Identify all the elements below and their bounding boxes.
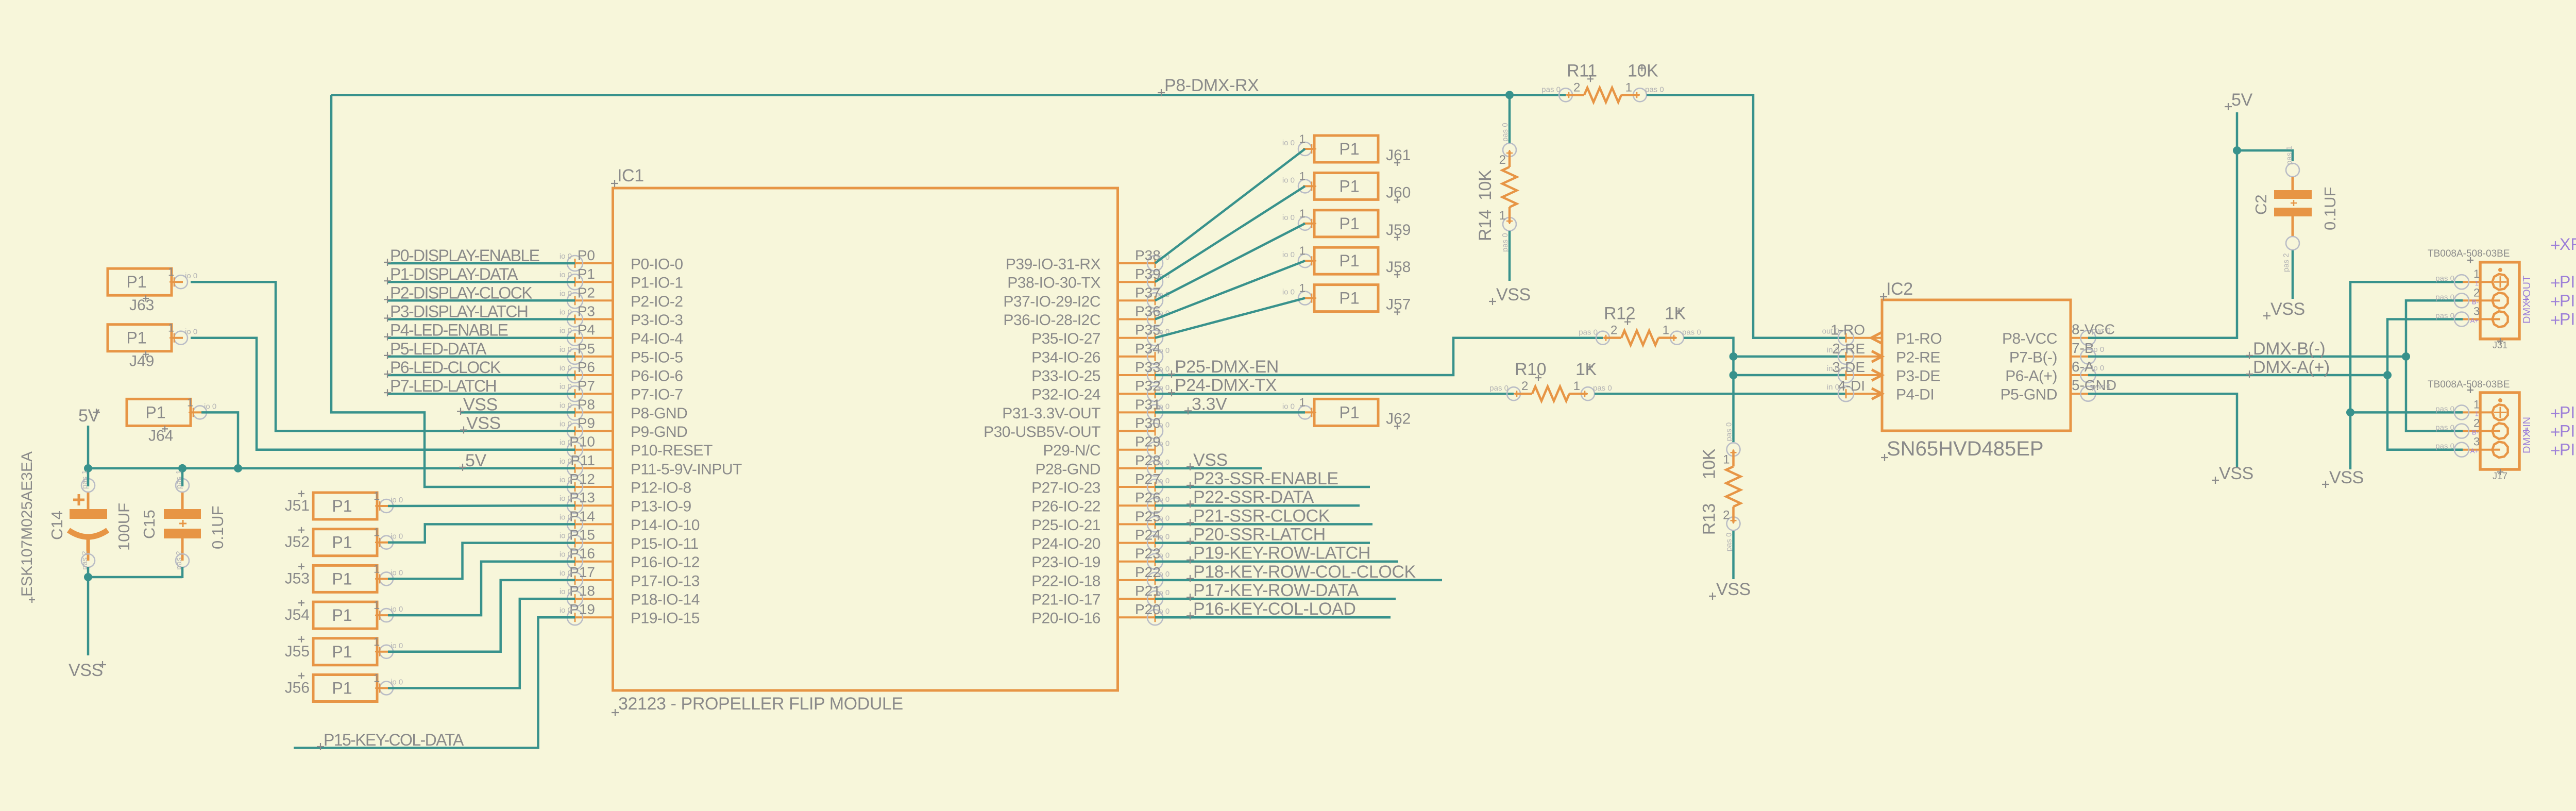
net label P2-DISPLAY-CLOCK — [384, 283, 532, 303]
svg-text:VSS: VSS — [463, 395, 498, 414]
svg-text:1K: 1K — [1665, 304, 1686, 324]
IC1 pin P39 (right, P38-IO-30-TX) — [1007, 266, 1170, 292]
connector J60 (P1 header) — [1282, 170, 1378, 199]
svg-text:io 0: io 0 — [560, 550, 572, 559]
svg-text:P19-KEY-ROW-LATCH: P19-KEY-ROW-LATCH — [1193, 544, 1370, 563]
svg-text:io 0: io 0 — [1282, 288, 1295, 297]
wire J56 to IC1 pin P18 — [388, 599, 575, 688]
svg-text:J56: J56 — [285, 680, 310, 697]
svg-text:io 0: io 0 — [1157, 514, 1170, 522]
C15 pin1 tiny label — [175, 470, 183, 489]
svg-text:io 0: io 0 — [1157, 477, 1170, 485]
IC1 pin P31 (right, P31-3.3V-OUT) — [1002, 396, 1170, 422]
svg-text:P35-IO-27: P35-IO-27 — [1031, 330, 1100, 347]
IC1 pin P13 (left, P13-IO-9) — [560, 489, 691, 515]
capacitor C14 (100UF electrolytic) — [69, 479, 108, 567]
IC1 pin P19 (left, P19-IO-15) — [560, 601, 700, 627]
svg-text:C14: C14 — [48, 511, 66, 540]
svg-text:io 0: io 0 — [185, 272, 197, 280]
svg-text:R11: R11 — [1567, 61, 1597, 80]
svg-text:io 0: io 0 — [560, 289, 572, 298]
IC1 pin P3 (left, P3-IO-3) — [560, 303, 683, 329]
IC1 pin P36 (right, P36-IO-28-I2C) — [1003, 303, 1170, 329]
svg-text:P33-IO-25: P33-IO-25 — [1031, 368, 1100, 385]
svg-text:10K: 10K — [1700, 448, 1719, 479]
annotation PIN 2 (B-) lower — [2551, 422, 2576, 441]
wire DMX-RX junction to R11 — [1510, 94, 1566, 96]
wire 5V stub — [2236, 112, 2239, 150]
IC2 pin 6-A — [2005, 359, 2104, 385]
svg-text:P0-IO-0: P0-IO-0 — [631, 256, 683, 273]
svg-text:P1: P1 — [1339, 289, 1359, 308]
svg-text:P14: P14 — [569, 508, 595, 524]
connector J60 designator — [1386, 184, 1411, 203]
svg-text:P16-KEY-COL-LOAD: P16-KEY-COL-LOAD — [1193, 599, 1355, 619]
svg-text:P32-IO-24: P32-IO-24 — [1031, 386, 1100, 403]
svg-text:J53: J53 — [285, 570, 310, 587]
wire DMX-A to J17 pin3 — [2387, 375, 2463, 450]
svg-text:io 0: io 0 — [391, 605, 403, 614]
svg-text:2: 2 — [1611, 324, 1617, 337]
wire GND to VSS (IC2) — [2088, 394, 2237, 468]
svg-text:1: 1 — [187, 396, 193, 409]
svg-text:P1: P1 — [145, 403, 165, 421]
svg-text:J62: J62 — [1386, 410, 1411, 427]
C14 value label 100UF — [115, 503, 133, 551]
IC1 pin P15 (left, P15-IO-11) — [560, 527, 699, 553]
connector J64 designator — [148, 426, 173, 444]
svg-text:2: 2 — [1573, 80, 1580, 94]
svg-text:IC1: IC1 — [617, 166, 644, 185]
wire C15 top stub — [181, 468, 184, 486]
svg-text:VSS: VSS — [69, 661, 103, 680]
connector J57 (P1 header) — [1282, 282, 1378, 312]
svg-text:1: 1 — [374, 489, 380, 502]
svg-text:pwr 0: pwr 0 — [2092, 327, 2111, 335]
svg-text:pas 0: pas 0 — [1682, 328, 1701, 337]
annotation PIN 3 (A+) upper — [2551, 310, 2576, 329]
svg-text:pas 0: pas 0 — [2435, 424, 2454, 432]
net label DMX-A(+) — [2246, 358, 2330, 378]
net label P4-LED-ENABLE — [384, 321, 507, 341]
svg-text:P25-DMX-EN: P25-DMX-EN — [1175, 357, 1279, 377]
IC1 pin P30 (right, P30-USB5V-OUT) — [984, 415, 1170, 441]
IC2 value label SN65HVD485EP — [1881, 437, 2044, 461]
svg-text:2: 2 — [1521, 379, 1528, 393]
svg-text:P13: P13 — [569, 489, 595, 505]
IC1 pin P10 (left, P10-RESET) — [560, 434, 713, 460]
connector J53 (P1 header) — [313, 562, 403, 592]
svg-text:R13: R13 — [1700, 503, 1719, 535]
svg-text:P39-IO-31-RX: P39-IO-31-RX — [1006, 256, 1101, 273]
net label VSS (pin P8) — [457, 395, 498, 415]
svg-text:P21-SSR-CLOCK: P21-SSR-CLOCK — [1193, 506, 1330, 526]
resistor R12 1K — [1579, 304, 1701, 345]
capacitor C2 (0.1UF ceramic) — [2274, 163, 2312, 250]
wire DMX-A to J31 pin3 — [2387, 319, 2463, 376]
svg-text:io 0: io 0 — [2092, 364, 2104, 373]
IC1 pin P1 (left, P1-IO-1) — [560, 266, 683, 292]
svg-text:P9: P9 — [578, 415, 595, 431]
junction DMX-B — [2402, 352, 2410, 361]
junction 5V rail / C15 — [178, 464, 187, 472]
svg-text:P23-IO-19: P23-IO-19 — [1031, 554, 1100, 571]
svg-text:P4-LED-ENABLE: P4-LED-ENABLE — [390, 321, 507, 340]
connector J53 designator — [285, 563, 310, 587]
connector J57 designator — [1386, 296, 1411, 315]
junction VSS bus — [84, 573, 92, 581]
wire IC1 pin P31 to J62 — [1155, 411, 1305, 414]
svg-text:1: 1 — [1625, 80, 1632, 94]
svg-text:pas 0: pas 0 — [2435, 274, 2454, 283]
svg-text:P2-RE: P2-RE — [1896, 349, 1940, 366]
IC1 pin P5 (left, P5-IO-5) — [560, 341, 683, 366]
wire net VSS at IC1 right row — [1155, 467, 1262, 470]
svg-text:P30-USB5V-OUT: P30-USB5V-OUT — [984, 424, 1100, 441]
wire net P22-SSR-DATA at IC1 right row — [1155, 504, 1360, 507]
svg-text:1: 1 — [2473, 267, 2480, 280]
svg-text:J59: J59 — [1386, 222, 1411, 239]
svg-text:io 0: io 0 — [560, 532, 572, 540]
svg-text:P6-A(+): P6-A(+) — [2005, 368, 2057, 385]
IC2 pin 4-DI — [1827, 378, 1934, 403]
svg-text:2: 2 — [1499, 153, 1506, 167]
C2 pin1 tiny label — [2285, 146, 2294, 165]
wire net P3-DISPLAY-LATCH to IC1 pin P3 — [387, 318, 575, 320]
wire net P0-DISPLAY-ENABLE to IC1 pin P0 — [387, 262, 575, 265]
svg-text:pas 0: pas 0 — [2435, 442, 2454, 451]
svg-text:io 0: io 0 — [1157, 533, 1170, 542]
svg-text:P3: P3 — [578, 303, 595, 319]
svg-text:P7-B(-): P7-B(-) — [2009, 349, 2057, 366]
IC2 pin 5-GND — [2001, 377, 2116, 403]
wire IC1 pin to J57 (diagonal) — [1155, 298, 1305, 338]
IC2 pin 3-DE — [1827, 359, 1940, 385]
svg-text:32123 - PROPELLER FLIP MODULE: 32123 - PROPELLER FLIP MODULE — [618, 694, 903, 714]
net label P0-DISPLAY-ENABLE — [384, 246, 539, 266]
connector J54 (P1 header) — [313, 599, 403, 629]
wire net P23-SSR-ENABLE at IC1 right row — [1155, 486, 1370, 488]
connector J51 (P1 header) — [313, 489, 403, 519]
svg-text:io 0: io 0 — [560, 513, 572, 521]
svg-text:P21-IO-17: P21-IO-17 — [1031, 592, 1100, 609]
svg-text:P18-KEY-ROW-COL-CLOCK: P18-KEY-ROW-COL-CLOCK — [1193, 562, 1416, 582]
IC1 pin P27 (right, P27-IO-23) — [1031, 471, 1170, 497]
net label VSS (under R14) — [1489, 285, 1531, 305]
svg-text:io 0: io 0 — [1157, 458, 1170, 467]
svg-text:P1: P1 — [332, 606, 352, 624]
svg-text:J31: J31 — [2493, 340, 2507, 350]
svg-text:P8-DMX-RX: P8-DMX-RX — [1164, 76, 1259, 95]
svg-text:pas 0: pas 0 — [1725, 533, 1734, 552]
net label VSS (under connectors) — [2322, 468, 2364, 488]
IC1 value label 32123 - PROPELLER FLIP MODULE — [612, 694, 903, 716]
IC1 pin P8 (left, P8-GND) — [560, 396, 688, 422]
resistor R13 10K — [1700, 423, 1741, 552]
svg-text:P2-IO-2: P2-IO-2 — [631, 293, 683, 310]
resistor R14 10K — [1476, 123, 1517, 252]
svg-text:P1: P1 — [332, 643, 352, 661]
svg-text:P6: P6 — [578, 359, 595, 375]
svg-text:P3-IO-3: P3-IO-3 — [631, 312, 683, 329]
svg-text:J57: J57 — [1386, 296, 1411, 313]
svg-text:io 0: io 0 — [560, 438, 572, 447]
wire VSS bus under caps — [88, 576, 182, 579]
part number text ESK107M025AE3EA — [19, 451, 36, 603]
junction 5V rail / C14 — [84, 464, 92, 472]
connector J31 (TB008A-508-03BE, DMX-OUT) — [2435, 262, 2519, 339]
wire C14 bottom to VSS bus — [87, 567, 90, 578]
svg-text:P9-GND: P9-GND — [631, 424, 687, 441]
svg-text:1: 1 — [1499, 209, 1506, 223]
svg-text:1: 1 — [374, 526, 380, 539]
wire C2 bottom to VSS — [2292, 250, 2294, 299]
svg-text:J55: J55 — [285, 643, 310, 660]
svg-text:1: 1 — [1299, 170, 1306, 182]
svg-text:J49: J49 — [129, 353, 154, 370]
op-amp IC2 body (RS-485 transceiver) — [1882, 300, 2071, 431]
wire net P1-DISPLAY-DATA to IC1 pin P1 — [387, 281, 575, 283]
IC1 pin P16 (left, P16-IO-12) — [560, 546, 700, 571]
svg-text:P1: P1 — [126, 329, 146, 347]
IC1 pin P7 (left, P7-IO-7) — [560, 378, 683, 403]
connector J58 designator — [1386, 259, 1411, 278]
connector J62 designator — [1386, 410, 1411, 429]
wire 5V rail to IC1 pin P11 — [88, 467, 575, 470]
svg-text:P10-RESET: P10-RESET — [631, 442, 713, 459]
IC1 pin P24 (right, P24-IO-20) — [1031, 527, 1170, 553]
wire net P2-DISPLAY-CLOCK to IC1 pin P2 — [387, 299, 575, 302]
svg-text:P10: P10 — [569, 434, 595, 450]
IC2 pin 1-RO — [1822, 322, 1942, 348]
svg-text:J51: J51 — [285, 497, 310, 514]
svg-text:IC2: IC2 — [1886, 279, 1913, 299]
svg-text:P1: P1 — [126, 273, 146, 291]
svg-text:J63: J63 — [129, 297, 154, 314]
svg-text:P25-IO-21: P25-IO-21 — [1031, 517, 1100, 534]
C14 pin2 tiny label — [80, 551, 89, 570]
svg-text:A+: A+ — [2470, 447, 2479, 455]
svg-text:P28-GND: P28-GND — [1035, 461, 1100, 478]
J31 designator — [2493, 338, 2507, 350]
net label VSS (right) — [1187, 450, 1228, 470]
svg-text:P1-RO: P1-RO — [1896, 330, 1942, 347]
svg-text:VSS: VSS — [1193, 450, 1228, 470]
annotation PIN 3 (A+) lower — [2551, 441, 2576, 459]
svg-text:P38-IO-30-TX: P38-IO-30-TX — [1007, 275, 1100, 292]
svg-text:io 0: io 0 — [391, 678, 403, 687]
svg-text:pas 0: pas 0 — [2435, 404, 2454, 413]
IC1 pin P22 (right, P22-IO-18) — [1031, 564, 1170, 590]
svg-text:1: 1 — [2473, 398, 2480, 411]
svg-text:P4: P4 — [578, 322, 595, 338]
svg-text:io 0: io 0 — [560, 494, 572, 503]
svg-text:io 0: io 0 — [560, 271, 572, 279]
svg-text:J52: J52 — [285, 534, 310, 551]
svg-text:P14-IO-10: P14-IO-10 — [631, 517, 700, 534]
connector J58 (P1 header) — [1282, 244, 1378, 274]
svg-text:io 0: io 0 — [1157, 365, 1170, 374]
wire net DMX-B(-) — [2088, 356, 2406, 358]
wire net P16-KEY-COL-LOAD at IC1 right row — [1155, 616, 1391, 619]
svg-text:1: 1 — [168, 265, 174, 278]
svg-text:in 0: in 0 — [1827, 346, 1839, 354]
connector J52 (P1 header) — [313, 526, 403, 556]
svg-text:pwr 0: pwr 0 — [2092, 382, 2111, 391]
wire R13 bottom to VSS — [1732, 531, 1735, 579]
svg-text:P36-IO-28-I2C: P36-IO-28-I2C — [1003, 312, 1100, 329]
svg-text:1: 1 — [1299, 132, 1306, 145]
wire IC1 pin to J58 (diagonal) — [1155, 261, 1305, 319]
svg-text:VSS: VSS — [466, 414, 501, 433]
svg-text:io 0: io 0 — [1157, 383, 1170, 392]
wire R10 to IC2 DI — [1595, 393, 1846, 395]
net label VSS (under C2) — [2263, 299, 2305, 319]
net label 3.3V — [1184, 394, 1227, 414]
C2 value label 0.1UF — [2321, 187, 2339, 230]
svg-text:P11-5-9V-INPUT: P11-5-9V-INPUT — [631, 461, 742, 478]
wire from J63 to IC1 pin P9 — [191, 282, 575, 431]
svg-text:in 0: in 0 — [1827, 383, 1839, 392]
svg-text:P15: P15 — [569, 527, 595, 543]
svg-text:P1: P1 — [1339, 140, 1359, 158]
net label P1-DISPLAY-DATA — [384, 265, 518, 284]
svg-text:P16: P16 — [569, 546, 595, 562]
svg-text:P4-IO-4: P4-IO-4 — [631, 330, 683, 347]
svg-text:io 0: io 0 — [391, 496, 403, 504]
svg-text:P3-DE: P3-DE — [1896, 368, 1940, 385]
wire J51 to IC1 pin P13 — [388, 504, 575, 507]
svg-text:P20-IO-16: P20-IO-16 — [1031, 610, 1100, 627]
wire net P6-LED-CLOCK to IC1 pin P6 — [387, 374, 575, 377]
junction DMX-RX / R14 — [1505, 91, 1514, 99]
C15 value label 0.1UF — [209, 506, 227, 549]
connector J55 designator — [285, 636, 310, 660]
wire R12 to enable riser — [1684, 338, 1734, 442]
svg-text:DMX-A(+): DMX-A(+) — [2253, 358, 2330, 377]
IC2 pin 8-VCC — [2002, 322, 2115, 348]
wire J64 pin to 5V rail — [201, 412, 238, 468]
C14 reference label — [48, 511, 66, 540]
svg-text:pas 0: pas 0 — [1645, 85, 1664, 94]
svg-text:PIN 1 (GND): PIN 1 (GND) — [2560, 273, 2576, 291]
J17 designator — [2493, 469, 2507, 481]
net label VSS (under R13) — [1709, 580, 1751, 600]
annotation PIN 2 (B-) upper — [2551, 291, 2576, 310]
svg-text:P5-LED-DATA: P5-LED-DATA — [390, 340, 487, 358]
svg-text:io 0: io 0 — [2092, 345, 2104, 354]
wire IC1 pin to J60 (diagonal) — [1155, 186, 1305, 282]
svg-text:VSS: VSS — [1496, 285, 1531, 305]
svg-text:PIN 1 (GND): PIN 1 (GND) — [2560, 403, 2576, 421]
svg-text:SN65HVD485EP: SN65HVD485EP — [1887, 437, 2044, 460]
svg-text:io 0: io 0 — [1157, 495, 1170, 504]
svg-text:PIN 2 (B-): PIN 2 (B-) — [2560, 291, 2576, 310]
svg-text:PIN 2 (B-): PIN 2 (B-) — [2560, 422, 2576, 441]
svg-text:1: 1 — [374, 672, 380, 685]
svg-text:io 0: io 0 — [560, 345, 572, 354]
svg-text:io 0: io 0 — [560, 420, 572, 429]
svg-text:io 0: io 0 — [1157, 402, 1170, 411]
svg-text:io 0: io 0 — [1282, 402, 1295, 411]
IC1 pin P33 (right, P33-IO-25) — [1031, 359, 1170, 385]
wire IC1 pin to J61 (diagonal) — [1155, 149, 1305, 263]
svg-text:io 0: io 0 — [560, 308, 572, 317]
net label P20-SSR-LATCH (right) — [1187, 525, 1326, 545]
svg-text:P7-IO-7: P7-IO-7 — [631, 386, 683, 403]
net label VSS (pin P9) — [460, 414, 501, 434]
IC1 pin P37 (right, P37-IO-29-I2C) — [1003, 284, 1170, 310]
IC1 pin P14 (left, P14-IO-10) — [560, 508, 700, 534]
svg-text:P1: P1 — [332, 497, 352, 515]
svg-text:pas 2: pas 2 — [2282, 253, 2291, 272]
svg-text:P6-LED-CLOCK: P6-LED-CLOCK — [390, 358, 501, 377]
connector J56 (P1 header) — [313, 672, 403, 702]
net label P23-SSR-ENABLE (right) — [1187, 469, 1338, 489]
IC1 pin P29 (right, P29-N/C) — [1043, 434, 1170, 460]
svg-text:io 0: io 0 — [560, 401, 572, 410]
svg-text:io 0: io 0 — [560, 606, 572, 615]
svg-text:1: 1 — [1299, 282, 1306, 295]
wire DE row to IC2 — [1734, 374, 1846, 377]
net label DMX-B(-) — [2246, 339, 2325, 359]
svg-text:pas 0: pas 0 — [1579, 328, 1598, 337]
connector J63 (P1 header) — [108, 265, 197, 295]
svg-text:J58: J58 — [1386, 259, 1411, 276]
svg-text:P5-GND: P5-GND — [2001, 386, 2057, 403]
svg-text:P24-DMX-TX: P24-DMX-TX — [1175, 376, 1277, 395]
wire R11 to right-edge riser down to IC2 RO — [1647, 95, 1846, 337]
wire DMX-RX junction down to R14 — [1509, 95, 1511, 143]
net label VSS (under IC2 gnd) — [2212, 464, 2253, 484]
svg-text:P12: P12 — [569, 471, 595, 487]
C14 pin1 tiny label — [80, 470, 89, 489]
svg-text:J64: J64 — [148, 427, 173, 444]
net label P3-DISPLAY-LATCH — [384, 302, 528, 322]
svg-text:1: 1 — [374, 599, 380, 612]
svg-text:6-A: 6-A — [2072, 359, 2094, 375]
svg-text:3: 3 — [2473, 435, 2480, 448]
IC1 pin P17 (left, P17-IO-13) — [560, 564, 700, 590]
wire branch to C2 top — [2237, 150, 2293, 161]
wire RE row to IC2 — [1734, 356, 1846, 358]
net label P24-DMX-TX — [1168, 376, 1277, 396]
svg-text:io 0: io 0 — [560, 457, 572, 466]
svg-text:P1: P1 — [332, 569, 352, 588]
connector J61 (P1 header) — [1282, 132, 1378, 162]
svg-text:io 0: io 0 — [1157, 440, 1170, 448]
svg-text:P18-IO-14: P18-IO-14 — [631, 592, 700, 609]
svg-text:io 0: io 0 — [560, 476, 572, 484]
IC1 pin P28 (right, P28-GND) — [1035, 452, 1170, 478]
op-amp IC1 body (32123 Propeller FLIP module) — [613, 188, 1118, 690]
svg-text:io 0: io 0 — [185, 328, 197, 336]
svg-text:1: 1 — [374, 635, 380, 648]
wire DMX-B to J31 pin2 — [2406, 300, 2463, 357]
svg-text:out 0: out 0 — [1822, 327, 1839, 336]
IC2 reference designator label — [1880, 279, 1913, 300]
svg-text:P1-DISPLAY-DATA: P1-DISPLAY-DATA — [390, 265, 518, 283]
svg-text:P20-SSR-LATCH: P20-SSR-LATCH — [1193, 525, 1326, 545]
svg-text:R12: R12 — [1604, 304, 1635, 324]
svg-text:1: 1 — [1573, 379, 1580, 393]
svg-text:DMX-IN: DMX-IN — [2521, 417, 2533, 453]
C15 pin2 tiny label — [175, 551, 183, 570]
connector J62 (P1 header) — [1282, 396, 1378, 426]
svg-text:5V: 5V — [2231, 90, 2253, 110]
label DMX-OUT — [2521, 276, 2533, 324]
label DMX-IN — [2521, 417, 2533, 453]
